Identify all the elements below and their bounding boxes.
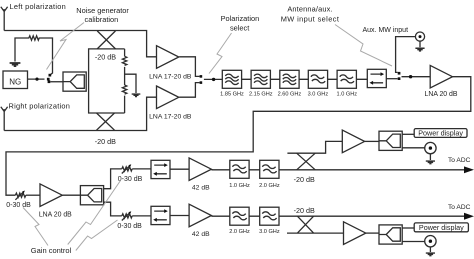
svg-text:LNA 17-20 dB: LNA 17-20 dB xyxy=(149,73,192,80)
svg-text:To ADC: To ADC xyxy=(448,204,471,211)
svg-text:2.60 GHz: 2.60 GHz xyxy=(278,91,302,97)
svg-text:3.0 GHz: 3.0 GHz xyxy=(308,91,329,97)
svg-text:Polarization: Polarization xyxy=(221,14,260,23)
svg-text:2.15 GHz: 2.15 GHz xyxy=(249,91,273,97)
svg-text:Power display: Power display xyxy=(418,128,463,137)
svg-text:1.0 GHz: 1.0 GHz xyxy=(337,91,358,97)
svg-text:0-30 dB: 0-30 dB xyxy=(117,223,142,230)
svg-text:LNA 20 dB: LNA 20 dB xyxy=(39,212,72,219)
svg-text:Power display: Power display xyxy=(419,223,464,232)
svg-text:Aux. MW input: Aux. MW input xyxy=(363,27,409,34)
svg-text:0-30 dB: 0-30 dB xyxy=(6,202,31,209)
svg-text:select: select xyxy=(230,24,249,33)
svg-text:MW input select: MW input select xyxy=(281,14,340,23)
svg-text:42 dB: 42 dB xyxy=(192,185,210,192)
svg-text:Gain control: Gain control xyxy=(31,246,72,255)
svg-text:Left polarization: Left polarization xyxy=(10,2,66,11)
svg-text:2.0 GHz: 2.0 GHz xyxy=(259,183,280,189)
svg-text:-20 dB: -20 dB xyxy=(95,53,116,62)
svg-text:1.85 GHz: 1.85 GHz xyxy=(220,91,244,97)
svg-text:42 dB: 42 dB xyxy=(192,231,210,238)
svg-text:1.0 GHz: 1.0 GHz xyxy=(229,183,250,189)
svg-text:2.0 GHz: 2.0 GHz xyxy=(229,229,250,235)
svg-text:LNA 17-20 dB: LNA 17-20 dB xyxy=(149,114,192,121)
svg-text:NG: NG xyxy=(9,78,21,87)
svg-text:To ADC: To ADC xyxy=(448,157,471,164)
svg-text:-20 dB: -20 dB xyxy=(95,137,116,146)
svg-text:0-30 dB: 0-30 dB xyxy=(118,176,143,183)
svg-text:3.0 GHz: 3.0 GHz xyxy=(259,229,280,235)
svg-text:Antenna/aux.: Antenna/aux. xyxy=(287,4,332,13)
svg-text:Right polarization: Right polarization xyxy=(9,101,71,110)
svg-text:calibration: calibration xyxy=(85,15,119,24)
svg-text:-20 dB: -20 dB xyxy=(294,206,315,215)
svg-text:-20 dB: -20 dB xyxy=(294,175,315,184)
svg-text:LNA 20 dB: LNA 20 dB xyxy=(425,91,458,98)
svg-text:Noise generator: Noise generator xyxy=(76,6,129,15)
